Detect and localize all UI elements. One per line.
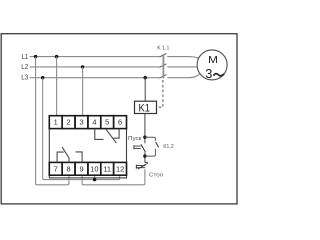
junction dot start-branch top	[143, 136, 146, 139]
svg-text:10: 10	[90, 164, 98, 173]
svg-text:L2: L2	[21, 62, 28, 71]
svg-text:9: 9	[79, 164, 83, 173]
relay internal contact terminal7 seat	[57, 152, 64, 162]
contactor K1.1 blade L3	[159, 75, 166, 79]
wire L2 line	[30, 66, 160, 68]
wire K1 coil to start button	[144, 114, 146, 144]
terminal row bottom squares 7-12	[49, 162, 126, 175]
wire L2 down to terminal 3	[82, 67, 84, 116]
relay internal contact terminal5 blade	[107, 129, 117, 144]
svg-text:К1.2: К1.2	[163, 144, 174, 150]
stop button blade	[138, 164, 146, 169]
wire start button to stop button	[144, 152, 146, 162]
wire L2 to motor	[167, 66, 197, 68]
wire terminal10 stub	[94, 175, 96, 179]
terminal row top squares 1-6	[49, 116, 126, 129]
aux contact K1.2 bottom wire	[145, 149, 156, 156]
wire L1 down to terminal 1	[56, 57, 58, 116]
stop button seat hook	[145, 162, 147, 164]
terminal numbers 7-12	[54, 164, 125, 173]
wire L3 tap down-left to lineA	[43, 78, 120, 180]
svg-text:11: 11	[103, 164, 111, 173]
junction dot start-branch bottom	[143, 154, 146, 157]
relay internal contact terminal4 seat	[95, 129, 104, 140]
junction dot L2-terminal3 tap	[81, 65, 84, 68]
relay box outline	[49, 116, 126, 178]
aux contact K1.2 blade	[156, 142, 159, 147]
motor M1 circle	[197, 50, 227, 80]
svg-text:7: 7	[54, 164, 58, 173]
svg-text:1: 1	[54, 117, 58, 126]
svg-text:6: 6	[118, 117, 122, 126]
svg-text:2: 2	[67, 117, 71, 126]
svg-text:Пуск: Пуск	[128, 136, 142, 142]
relay internal contact terminal8 blade	[62, 147, 69, 162]
border frame	[1, 34, 237, 204]
svg-text:L1: L1	[22, 52, 29, 61]
wire terminal9 to stop-button riser	[82, 169, 145, 185]
svg-text:L3: L3	[21, 72, 28, 81]
svg-text:3: 3	[205, 66, 212, 81]
svg-text:K 1.1: K 1.1	[157, 46, 169, 52]
wire L1 to motor	[167, 57, 198, 59]
stop button actuator	[136, 165, 145, 169]
svg-text:K1: K1	[138, 103, 150, 115]
start button blade	[141, 144, 146, 152]
junction dot L1-terminal1 tap	[55, 55, 58, 58]
relay internal contact terminal9 seat	[76, 152, 83, 163]
wire L1 tap down-left to terminal 8	[36, 57, 69, 185]
svg-text:Стоп: Стоп	[149, 172, 163, 178]
svg-text:8: 8	[67, 164, 71, 173]
svg-text:12: 12	[116, 164, 124, 173]
junction dot terminal10-lineA	[93, 178, 96, 181]
junction dot L3-K1 coil tap	[144, 76, 147, 79]
svg-text:3: 3	[79, 117, 83, 126]
svg-text:4: 4	[92, 117, 96, 126]
junction dot L3-left tap	[41, 76, 44, 79]
contactor K1.1 linkage bar	[162, 54, 164, 78]
wire L3 to K1 coil	[144, 78, 146, 102]
relay internal contact terminal6 seat	[113, 129, 119, 139]
start button actuator	[134, 145, 141, 149]
terminal numbers 1-6	[54, 117, 123, 126]
contactor coil K1 box	[135, 101, 157, 113]
svg-text:5: 5	[105, 117, 109, 126]
svg-text:M: M	[208, 55, 218, 66]
aux contact K1.2 branch top wire	[145, 137, 156, 141]
wire L3 line	[30, 77, 160, 79]
contactor K1.1 linkage dashed to K1 coil	[157, 80, 163, 107]
contactor K1.1 blade L2	[159, 64, 166, 68]
wire L3 to motor	[167, 74, 200, 78]
wire L1 line	[30, 56, 160, 58]
contactor K1.1 blade L1	[159, 54, 166, 58]
junction dot L1-left tap	[34, 55, 37, 58]
